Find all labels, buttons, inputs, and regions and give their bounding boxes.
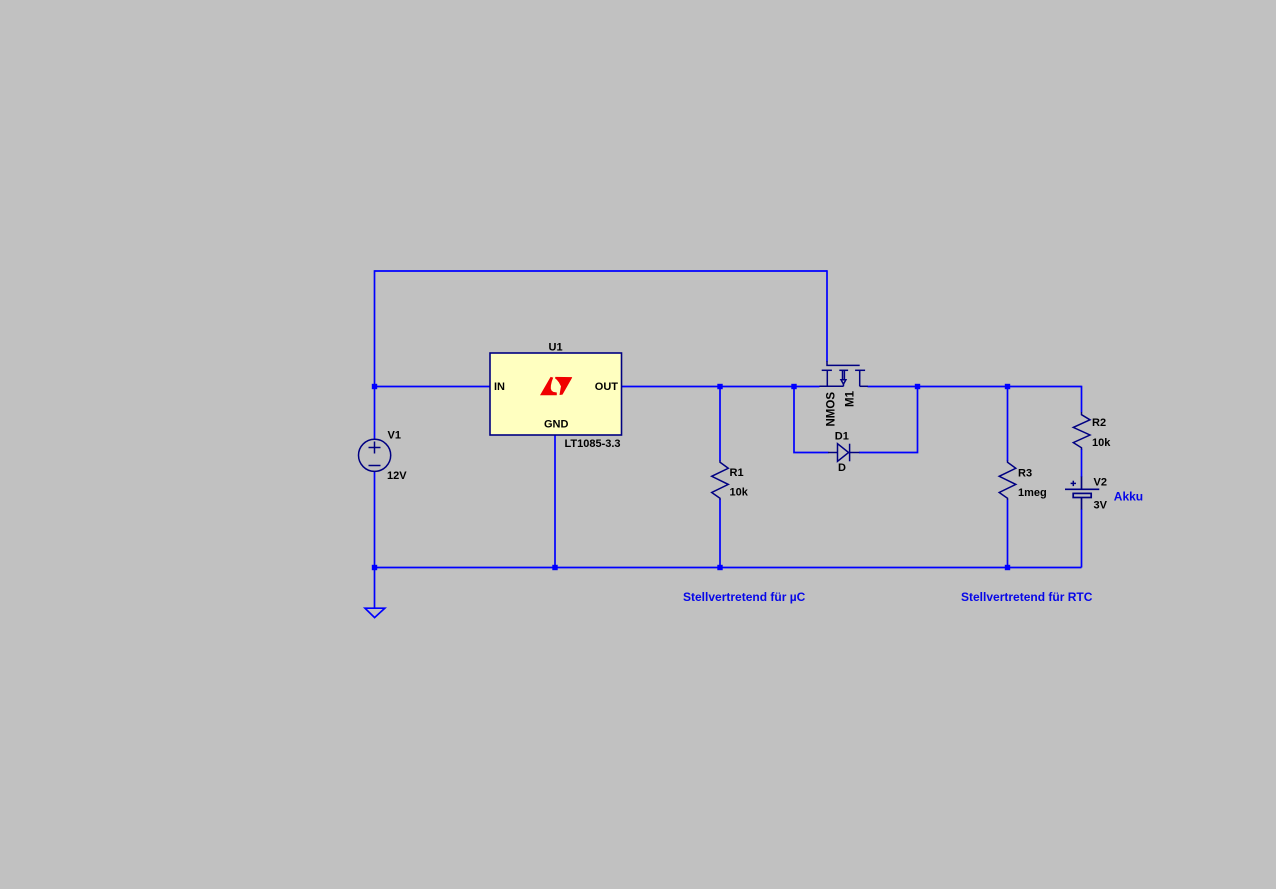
wire U1 OUT rail bbox=[622, 386, 820, 388]
wire D1 anode branch bbox=[794, 387, 829, 453]
node junction R1 bottom bbox=[717, 565, 722, 570]
wire V1 top lead bbox=[374, 387, 376, 440]
op-amp U1 regulator box bbox=[490, 353, 622, 435]
diode D1 bbox=[828, 444, 860, 462]
svg-text:10k: 10k bbox=[1092, 437, 1111, 449]
node junction V1 top bbox=[372, 384, 377, 389]
node junction R3 top bbox=[1005, 384, 1010, 389]
battery V2 bbox=[1065, 477, 1099, 510]
wire left drop bbox=[374, 270, 376, 387]
wire R1 top lead bbox=[719, 387, 721, 462]
svg-text:V2: V2 bbox=[1094, 476, 1107, 488]
svg-text:NMOS: NMOS bbox=[826, 392, 838, 427]
wire D1 cathode branch bbox=[859, 387, 918, 453]
wire R2 to V2 bbox=[1081, 449, 1083, 477]
svg-text:Stellvertretend für RTC: Stellvertretend für RTC bbox=[961, 590, 1093, 604]
svg-text:R1: R1 bbox=[730, 467, 744, 479]
svg-text:Stellvertretend für µC: Stellvertretend für µC bbox=[683, 590, 806, 604]
node junction NMOS drain bbox=[915, 384, 920, 389]
svg-text:GND: GND bbox=[544, 418, 569, 430]
svg-text:R3: R3 bbox=[1018, 467, 1032, 479]
svg-text:OUT: OUT bbox=[595, 381, 619, 393]
wire ground stub bbox=[374, 568, 376, 608]
U1 LT logo bbox=[540, 377, 572, 395]
wire V1 bottom lead bbox=[374, 471, 376, 567]
svg-text:D: D bbox=[838, 462, 846, 474]
svg-text:3V: 3V bbox=[1094, 499, 1108, 511]
svg-text:V1: V1 bbox=[388, 430, 401, 442]
node junction V1 bottom bbox=[372, 565, 377, 570]
svg-text:LT1085-3.3: LT1085-3.3 bbox=[565, 438, 621, 450]
wire to U1 IN bbox=[375, 386, 491, 388]
svg-text:Akku: Akku bbox=[1114, 490, 1143, 504]
ground bbox=[365, 608, 385, 617]
svg-text:10k: 10k bbox=[730, 487, 749, 499]
wire bottom rail bbox=[375, 567, 1082, 569]
resistor R3 bbox=[999, 461, 1016, 501]
svg-text:12V: 12V bbox=[387, 470, 407, 482]
wire V2 to bottom rail bbox=[1081, 509, 1083, 568]
wire U1 GND lead bbox=[554, 435, 556, 568]
wire gate drop bbox=[826, 270, 828, 361]
svg-text:M1: M1 bbox=[845, 390, 857, 407]
wire R3 top lead bbox=[1007, 387, 1009, 462]
svg-text:R2: R2 bbox=[1092, 417, 1106, 429]
node junction NMOS source bbox=[791, 384, 796, 389]
resistor R1 bbox=[712, 461, 729, 501]
resistor R2 bbox=[1073, 412, 1090, 450]
wire R3 bottom lead bbox=[1007, 500, 1009, 568]
svg-text:IN: IN bbox=[494, 381, 505, 393]
svg-text:U1: U1 bbox=[549, 341, 563, 353]
node junction R1 top bbox=[717, 384, 722, 389]
svg-text:D1: D1 bbox=[835, 431, 849, 443]
svg-text:1meg: 1meg bbox=[1018, 487, 1047, 499]
wire NMOS drain rail bbox=[868, 386, 1082, 388]
wire R1 bottom lead bbox=[719, 500, 721, 568]
transistor M1 NMOS bbox=[820, 361, 868, 386]
wire R2 branch top bbox=[1081, 386, 1083, 413]
voltage source V1 bbox=[359, 439, 391, 471]
node junction R3 bottom bbox=[1005, 565, 1010, 570]
node junction U1 GND bbox=[552, 565, 557, 570]
wire top rail bbox=[375, 270, 828, 272]
